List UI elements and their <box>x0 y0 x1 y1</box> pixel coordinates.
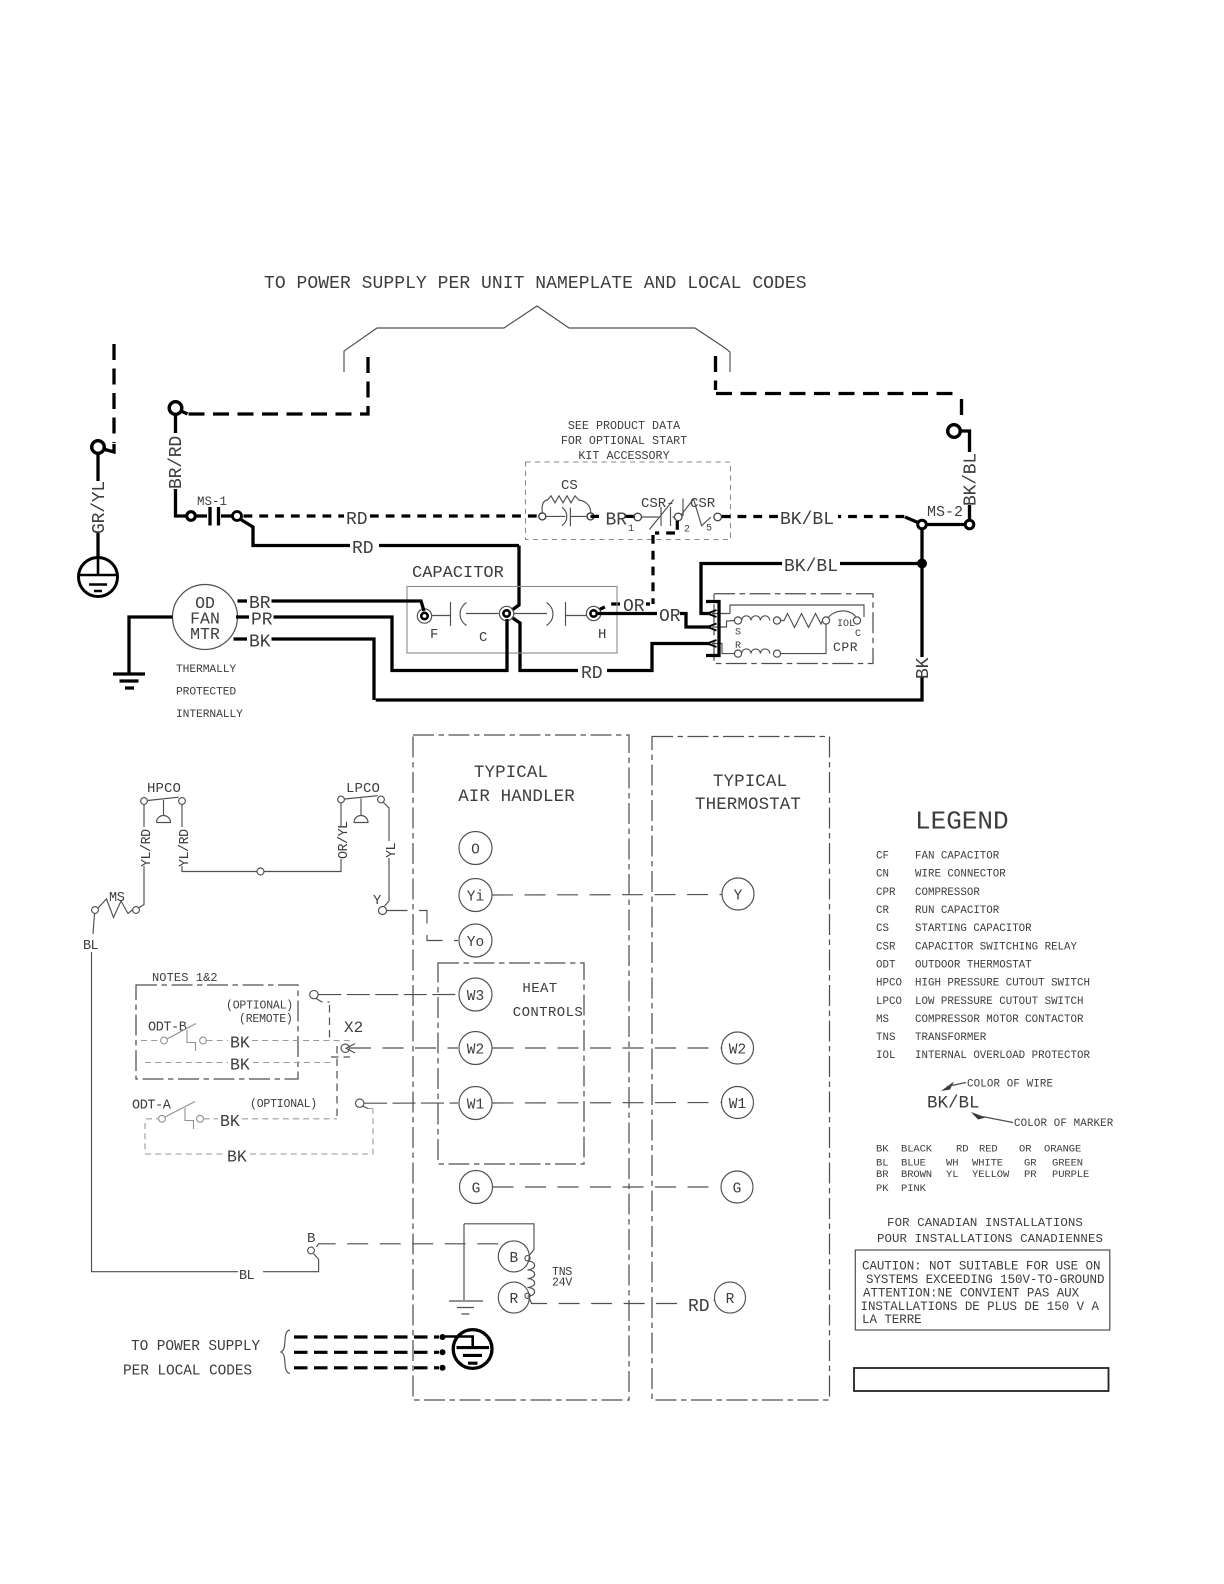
svg-text:1: 1 <box>628 524 634 535</box>
transformer TNS primary loop <box>464 1224 534 1256</box>
compressor CPR box <box>714 594 873 664</box>
svg-text:COLOR OF WIRE: COLOR OF WIRE <box>967 1079 1053 1091</box>
svg-text:YL: YL <box>946 1169 958 1181</box>
svg-text:PK: PK <box>876 1183 889 1195</box>
svg-text:BK: BK <box>230 1056 250 1075</box>
svg-text:F: F <box>430 627 438 643</box>
svg-text:BK/BL: BK/BL <box>927 1094 980 1114</box>
wire MS-2 down with junction <box>920 529 923 657</box>
wire GR/YL <box>96 454 99 482</box>
svg-text:H: H <box>598 627 606 643</box>
svg-text:BK/BL: BK/BL <box>784 557 838 577</box>
caution box <box>855 1250 1110 1330</box>
svg-text:RD: RD <box>352 539 374 559</box>
wire W1 <box>356 1099 364 1107</box>
wire YL/RD 1 <box>143 805 145 828</box>
CPR terminal C <box>853 617 860 624</box>
svg-text:IOL: IOL <box>837 619 855 630</box>
wire PR motor to C <box>236 615 249 618</box>
wire G dashed <box>493 1186 721 1188</box>
svg-text:CSR: CSR <box>876 941 896 953</box>
svg-text:(OPTIONAL): (OPTIONAL) <box>226 1000 293 1013</box>
ground electrode (earth in circle) <box>79 558 118 597</box>
svg-text:RD: RD <box>581 664 603 684</box>
svg-text:HPCO: HPCO <box>147 781 181 797</box>
svg-text:PROTECTED: PROTECTED <box>176 687 236 699</box>
wire BK/BL right <box>961 431 970 452</box>
ODT-A loop wire BK <box>145 1123 225 1154</box>
terminal R <box>498 1282 529 1313</box>
junction dot <box>917 559 927 569</box>
terminal Yo <box>459 924 492 957</box>
svg-text:IOL: IOL <box>876 1050 895 1062</box>
svg-text:BLACK: BLACK <box>901 1144 933 1156</box>
svg-text:ODT: ODT <box>876 960 896 972</box>
svg-text:CPR: CPR <box>876 887 896 899</box>
wire BR/RD <box>174 415 177 434</box>
transformer terminal small B <box>525 1256 530 1261</box>
svg-text:AIR HANDLER: AIR HANDLER <box>458 787 575 807</box>
svg-text:COMPRESSOR MOTOR CONTACTOR: COMPRESSOR MOTOR CONTACTOR <box>915 1014 1084 1026</box>
svg-text:5: 5 <box>706 524 712 535</box>
CPR run winding <box>742 649 770 654</box>
svg-text:TYPICAL: TYPICAL <box>713 772 787 792</box>
svg-text:INSTALLATIONS DE PLUS DE 150 V: INSTALLATIONS DE PLUS DE 150 V A <box>861 1300 1100 1314</box>
wire RD solid from MS-1 <box>240 519 519 546</box>
IOL bimetal arc <box>829 611 856 618</box>
power supply wires 3x dashed <box>294 1335 439 1338</box>
svg-text:(REMOTE): (REMOTE) <box>239 1013 293 1026</box>
svg-text:OR/YL: OR/YL <box>337 821 352 859</box>
wire BK/BL dashed CSR-5 to MS-2 <box>722 515 905 518</box>
svg-text:HPCO: HPCO <box>876 978 902 990</box>
start kit dashed box <box>526 462 731 540</box>
svg-text:BK: BK <box>230 1034 250 1053</box>
svg-text:CR: CR <box>876 905 889 917</box>
ground transformer <box>449 1301 483 1314</box>
svg-text:24V: 24V <box>552 1277 572 1290</box>
wire B dashed to air handler <box>317 1244 502 1247</box>
wire color table <box>876 1144 1089 1196</box>
label BR <box>591 515 636 518</box>
thermostat terminal Y <box>722 878 754 910</box>
svg-text:FOR CANADIAN INSTALLATIONS: FOR CANADIAN INSTALLATIONS <box>887 1216 1083 1230</box>
svg-text:THERMALLY: THERMALLY <box>176 664 236 676</box>
capacitor plates C-H <box>514 602 586 626</box>
wire W3 <box>318 994 458 996</box>
legend rows <box>876 851 1090 1063</box>
link BR/RD circle to dashes <box>181 411 188 414</box>
capacitor terminal C <box>499 606 513 620</box>
svg-text:OR: OR <box>659 607 681 627</box>
ODT-B lower BK line <box>145 1062 228 1064</box>
svg-text:OUTDOOR THERMOSTAT: OUTDOOR THERMOSTAT <box>915 960 1032 972</box>
thermostat terminal W2 <box>722 1032 754 1064</box>
wire end dots <box>440 1334 446 1340</box>
svg-text:NOTES 1&2: NOTES 1&2 <box>152 971 218 985</box>
svg-text:TNS: TNS <box>876 1032 895 1044</box>
capacitor terminal H <box>586 606 600 620</box>
svg-text:W3: W3 <box>467 989 484 1005</box>
svg-text:Yi: Yi <box>467 890 484 906</box>
svg-text:MS: MS <box>876 1014 889 1026</box>
motor OD FAN MTR <box>173 585 238 650</box>
svg-text:WH: WH <box>946 1158 958 1170</box>
wire RD dotted to CS <box>244 514 544 517</box>
svg-text:BK: BK <box>220 1112 240 1131</box>
svg-text:W2: W2 <box>729 1043 746 1059</box>
wire BL down <box>93 914 95 935</box>
svg-text:COLOR OF MARKER: COLOR OF MARKER <box>1014 1118 1114 1130</box>
svg-text:MS-1: MS-1 <box>197 495 227 509</box>
svg-text:BK: BK <box>227 1148 247 1167</box>
wire X2 to ODT-A dashed <box>331 1046 350 1116</box>
svg-text:CS: CS <box>876 923 889 935</box>
svg-text:G: G <box>733 1182 742 1198</box>
svg-text:CPR: CPR <box>833 640 858 655</box>
wire GR/YL dashed feed <box>112 344 115 443</box>
svg-text:ODT-A: ODT-A <box>132 1099 172 1114</box>
power supply brace <box>344 306 730 372</box>
svg-text:BK: BK <box>249 633 271 653</box>
wire Y to Yo <box>387 911 459 941</box>
svg-text:RUN CAPACITOR: RUN CAPACITOR <box>915 905 1000 917</box>
svg-text:BLUE: BLUE <box>901 1158 926 1170</box>
thermostat terminal W1 <box>722 1087 754 1119</box>
CPR start winding <box>742 616 770 621</box>
wire L2 power feed right (dashed) <box>716 356 962 423</box>
color of wire arrow <box>941 1082 954 1092</box>
svg-text:ORANGE: ORANGE <box>1044 1144 1081 1156</box>
wire YL <box>384 803 390 842</box>
terminal W2 <box>459 1032 492 1065</box>
svg-text:HIGH PRESSURE CUTOUT SWITCH: HIGH PRESSURE CUTOUT SWITCH <box>915 978 1090 990</box>
CPR winding frame <box>730 605 864 617</box>
svg-text:LA TERRE: LA TERRE <box>862 1313 922 1327</box>
svg-text:PER LOCAL CODES: PER LOCAL CODES <box>123 1364 252 1380</box>
svg-text:PURPLE: PURPLE <box>1052 1169 1089 1181</box>
svg-text:YL/RD: YL/RD <box>178 829 193 867</box>
wire BK/BL horizontal to CPR <box>701 564 918 614</box>
svg-text:FOR OPTIONAL START: FOR OPTIONAL START <box>561 434 687 448</box>
svg-text:YL/RD: YL/RD <box>140 829 155 867</box>
svg-text:BR: BR <box>876 1169 889 1181</box>
svg-text:TYPICAL: TYPICAL <box>474 763 548 783</box>
svg-text:R: R <box>509 1292 518 1308</box>
wire W3 to X2 dashed <box>316 999 330 1039</box>
wire Yi to thermostat Y <box>492 894 722 897</box>
capacitor terminal F <box>417 609 431 623</box>
terminal W3 <box>459 978 492 1011</box>
svg-text:BR/RD: BR/RD <box>167 436 187 489</box>
svg-text:Y: Y <box>734 889 743 905</box>
wire YL/RD 2 <box>181 805 183 828</box>
svg-text:CAPACITOR: CAPACITOR <box>412 564 504 583</box>
wire BK motor <box>234 637 248 640</box>
svg-text:COMPRESSOR: COMPRESSOR <box>915 887 980 899</box>
svg-text:CS: CS <box>561 478 578 494</box>
svg-text:POUR INSTALLATIONS CANADIENNES: POUR INSTALLATIONS CANADIENNES <box>877 1232 1103 1246</box>
svg-text:BK/BL: BK/BL <box>780 510 834 530</box>
svg-text:BROWN: BROWN <box>901 1169 932 1181</box>
svg-text:WIRE CONNECTOR: WIRE CONNECTOR <box>915 869 1006 881</box>
svg-text:INTERNAL OVERLOAD PROTECTOR: INTERNAL OVERLOAD PROTECTOR <box>915 1050 1090 1062</box>
svg-text:YL: YL <box>385 842 400 858</box>
svg-text:W1: W1 <box>467 1098 484 1114</box>
svg-text:TO POWER SUPPLY: TO POWER SUPPLY <box>131 1339 260 1355</box>
svg-text:RED: RED <box>979 1144 998 1156</box>
ODT-B box <box>136 985 298 1079</box>
svg-text:BK/BL: BK/BL <box>962 453 982 506</box>
wire motor left to ground <box>129 617 173 674</box>
terminal B <box>498 1241 529 1272</box>
svg-text:BR: BR <box>606 511 628 531</box>
svg-text:GR/YL: GR/YL <box>90 481 110 534</box>
svg-text:LPCO: LPCO <box>876 996 902 1008</box>
color of marker arrow <box>971 1112 986 1120</box>
terminal W1 <box>459 1087 492 1120</box>
svg-text:STARTING CAPACITOR: STARTING CAPACITOR <box>915 923 1032 935</box>
svg-text:OR: OR <box>1019 1144 1032 1156</box>
svg-text:BL: BL <box>876 1158 888 1170</box>
transformer coil TNS <box>528 1261 535 1296</box>
plug connector bracket <box>706 602 719 656</box>
svg-text:CAPACITOR SWITCHING RELAY: CAPACITOR SWITCHING RELAY <box>915 941 1078 953</box>
terminal W3 stub <box>310 990 318 998</box>
connector BK/BL ring top <box>948 425 961 438</box>
svg-text:C: C <box>855 629 861 640</box>
svg-text:O: O <box>471 843 480 859</box>
svg-text:Yo: Yo <box>467 935 484 951</box>
svg-text:CF: CF <box>876 851 889 863</box>
brace { <box>281 1330 291 1374</box>
terminal O <box>459 832 492 865</box>
capacitor box <box>407 587 617 654</box>
svg-text:MS-2: MS-2 <box>927 504 963 521</box>
svg-text:CONTROLS: CONTROLS <box>513 1005 583 1021</box>
wire BR motor to F <box>238 599 248 602</box>
transformer terminal small R <box>525 1293 530 1298</box>
svg-text:C: C <box>479 630 487 646</box>
svg-text:X2: X2 <box>344 1019 363 1037</box>
relay coil CSR <box>682 499 712 526</box>
svg-text:FAN CAPACITOR: FAN CAPACITOR <box>915 851 1000 863</box>
CPR overload resistor <box>781 614 823 628</box>
power receptacle ground <box>453 1330 492 1369</box>
svg-text:KIT ACCESSORY: KIT ACCESSORY <box>578 449 669 463</box>
svg-text:YELLOW: YELLOW <box>972 1169 1010 1181</box>
svg-text:(OPTIONAL): (OPTIONAL) <box>250 1098 317 1111</box>
svg-text:GREEN: GREEN <box>1052 1158 1083 1170</box>
svg-text:INTERNALLY: INTERNALLY <box>176 709 243 721</box>
air handler box <box>413 735 629 1400</box>
svg-text:BK: BK <box>876 1144 889 1156</box>
svg-text:MTR: MTR <box>190 625 220 644</box>
svg-text:G: G <box>472 1182 481 1198</box>
svg-text:W1: W1 <box>729 1097 746 1113</box>
wire L1 power feed left (dashed) <box>186 357 368 414</box>
wire OR dashed from CSR-2 down <box>624 521 677 604</box>
connector GR/YL ring <box>92 441 105 454</box>
svg-text:PINK: PINK <box>901 1183 927 1195</box>
bottom empty box <box>854 1368 1109 1391</box>
svg-text:R: R <box>726 1292 735 1308</box>
svg-text:TRANSFORMER: TRANSFORMER <box>915 1032 987 1044</box>
svg-text:LOW PRESSURE CUTOUT SWITCH: LOW PRESSURE CUTOUT SWITCH <box>915 996 1083 1008</box>
connector BR/RD ring <box>169 402 182 415</box>
svg-text:S: S <box>735 628 741 639</box>
connector wire splice <box>257 868 264 875</box>
svg-text:PR: PR <box>251 611 273 631</box>
svg-text:CN: CN <box>876 869 889 881</box>
svg-text:ATTENTION:NE CONVIENT PAS AUX: ATTENTION:NE CONVIENT PAS AUX <box>863 1287 1080 1301</box>
plug arrows <box>708 610 717 617</box>
thermostat terminal G <box>721 1171 753 1203</box>
svg-text:GR: GR <box>1024 1158 1037 1170</box>
wire RD to thermostat R <box>530 1299 687 1304</box>
wire OR solid H to CPR <box>597 612 657 615</box>
wire W2 from X2 <box>350 1047 458 1049</box>
svg-text:RD: RD <box>346 510 368 530</box>
svg-text:BL: BL <box>83 939 99 954</box>
CPR terminal S <box>734 617 741 624</box>
svg-text:HEAT: HEAT <box>522 981 557 997</box>
svg-text:LEGEND: LEGEND <box>915 807 1009 837</box>
svg-text:ODT-B: ODT-B <box>148 1021 187 1036</box>
thermostat box <box>652 737 830 1401</box>
svg-text:B: B <box>307 1231 315 1247</box>
terminal Yi <box>459 879 492 912</box>
svg-text:BK: BK <box>914 657 934 679</box>
svg-text:TO POWER SUPPLY PER UNIT NAMEP: TO POWER SUPPLY PER UNIT NAMEPLATE AND L… <box>264 274 807 294</box>
wire RD down to capacitor C <box>512 546 519 611</box>
svg-text:CAUTION: NOT SUITABLE FOR USE: CAUTION: NOT SUITABLE FOR USE ON <box>862 1260 1100 1274</box>
svg-text:2: 2 <box>684 525 690 536</box>
svg-text:RD: RD <box>688 1297 710 1317</box>
capacitor plates F-C <box>432 602 499 626</box>
svg-text:LPCO: LPCO <box>346 781 380 797</box>
thermostat terminal R <box>715 1282 746 1313</box>
svg-text:SYSTEMS EXCEEDING 150V-TO-GROU: SYSTEMS EXCEEDING 150V-TO-GROUND <box>866 1273 1104 1287</box>
svg-text:B: B <box>509 1251 518 1267</box>
svg-text:W2: W2 <box>467 1043 484 1059</box>
svg-text:BL: BL <box>239 1269 255 1284</box>
ground motor <box>113 674 145 688</box>
svg-text:WHITE: WHITE <box>972 1158 1003 1170</box>
heat controls box <box>438 963 584 1164</box>
svg-text:SEE PRODUCT DATA: SEE PRODUCT DATA <box>568 419 681 433</box>
svg-text:RD: RD <box>956 1144 968 1156</box>
svg-text:THERMOSTAT: THERMOSTAT <box>695 795 801 815</box>
svg-text:PR: PR <box>1024 1169 1037 1181</box>
terminal G <box>460 1171 493 1204</box>
